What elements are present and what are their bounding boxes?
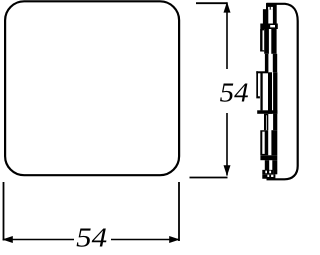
side view claw bar with slot y114-130 xyxy=(264,114,268,130)
extension line right (bottom dimension) xyxy=(178,182,180,241)
side view claw lower wide bar xyxy=(260,155,277,160)
side view claw upper column xyxy=(266,7,277,24)
side view claw lower bar pair xyxy=(265,160,269,170)
side view claw thin left bar xyxy=(256,71,260,98)
arrowhead vertical top xyxy=(224,2,231,13)
side view claw shoulder bar xyxy=(256,71,268,73)
dimension line bottom right segment xyxy=(111,239,179,241)
arrowhead bottom right xyxy=(169,236,180,243)
dimension line vertical lower segment xyxy=(226,113,228,176)
dimension line vertical upper segment xyxy=(226,3,228,70)
side view claw mid block left frame xyxy=(260,29,264,52)
extension line left (bottom dimension) xyxy=(3,182,5,241)
arrowhead bottom left xyxy=(2,236,13,243)
side view claw bar pair y54-72 xyxy=(265,54,269,73)
side view claw left bar y73-110 xyxy=(260,73,262,111)
extension line top (vertical dimension) xyxy=(196,2,228,4)
dimension line bottom left segment xyxy=(4,239,75,241)
side view claw wide bar xyxy=(260,24,278,30)
side view claw mid block bars xyxy=(264,29,269,54)
arrowhead vertical bottom xyxy=(224,165,231,176)
side view claw lower block left frame xyxy=(260,130,268,155)
side view claw center bar y72-114 xyxy=(268,72,272,114)
extension line bottom (vertical dimension) xyxy=(190,177,228,179)
side view claw right bar y72-114 xyxy=(273,72,277,114)
side view claw top white dots xyxy=(268,7,270,10)
side view claw bottom block upper xyxy=(262,170,273,174)
cover plate front view outline xyxy=(5,1,179,175)
svg-text:54: 54 xyxy=(220,77,249,107)
side view claw connector bar xyxy=(257,110,277,114)
side view claw left nub upper xyxy=(263,9,266,23)
side view claw top bar xyxy=(266,3,277,7)
side view plate outline xyxy=(267,4,298,180)
side view claw bottom block lower xyxy=(262,174,275,178)
side view claw lower block right bar xyxy=(271,130,277,155)
svg-text:54: 54 xyxy=(76,223,107,253)
